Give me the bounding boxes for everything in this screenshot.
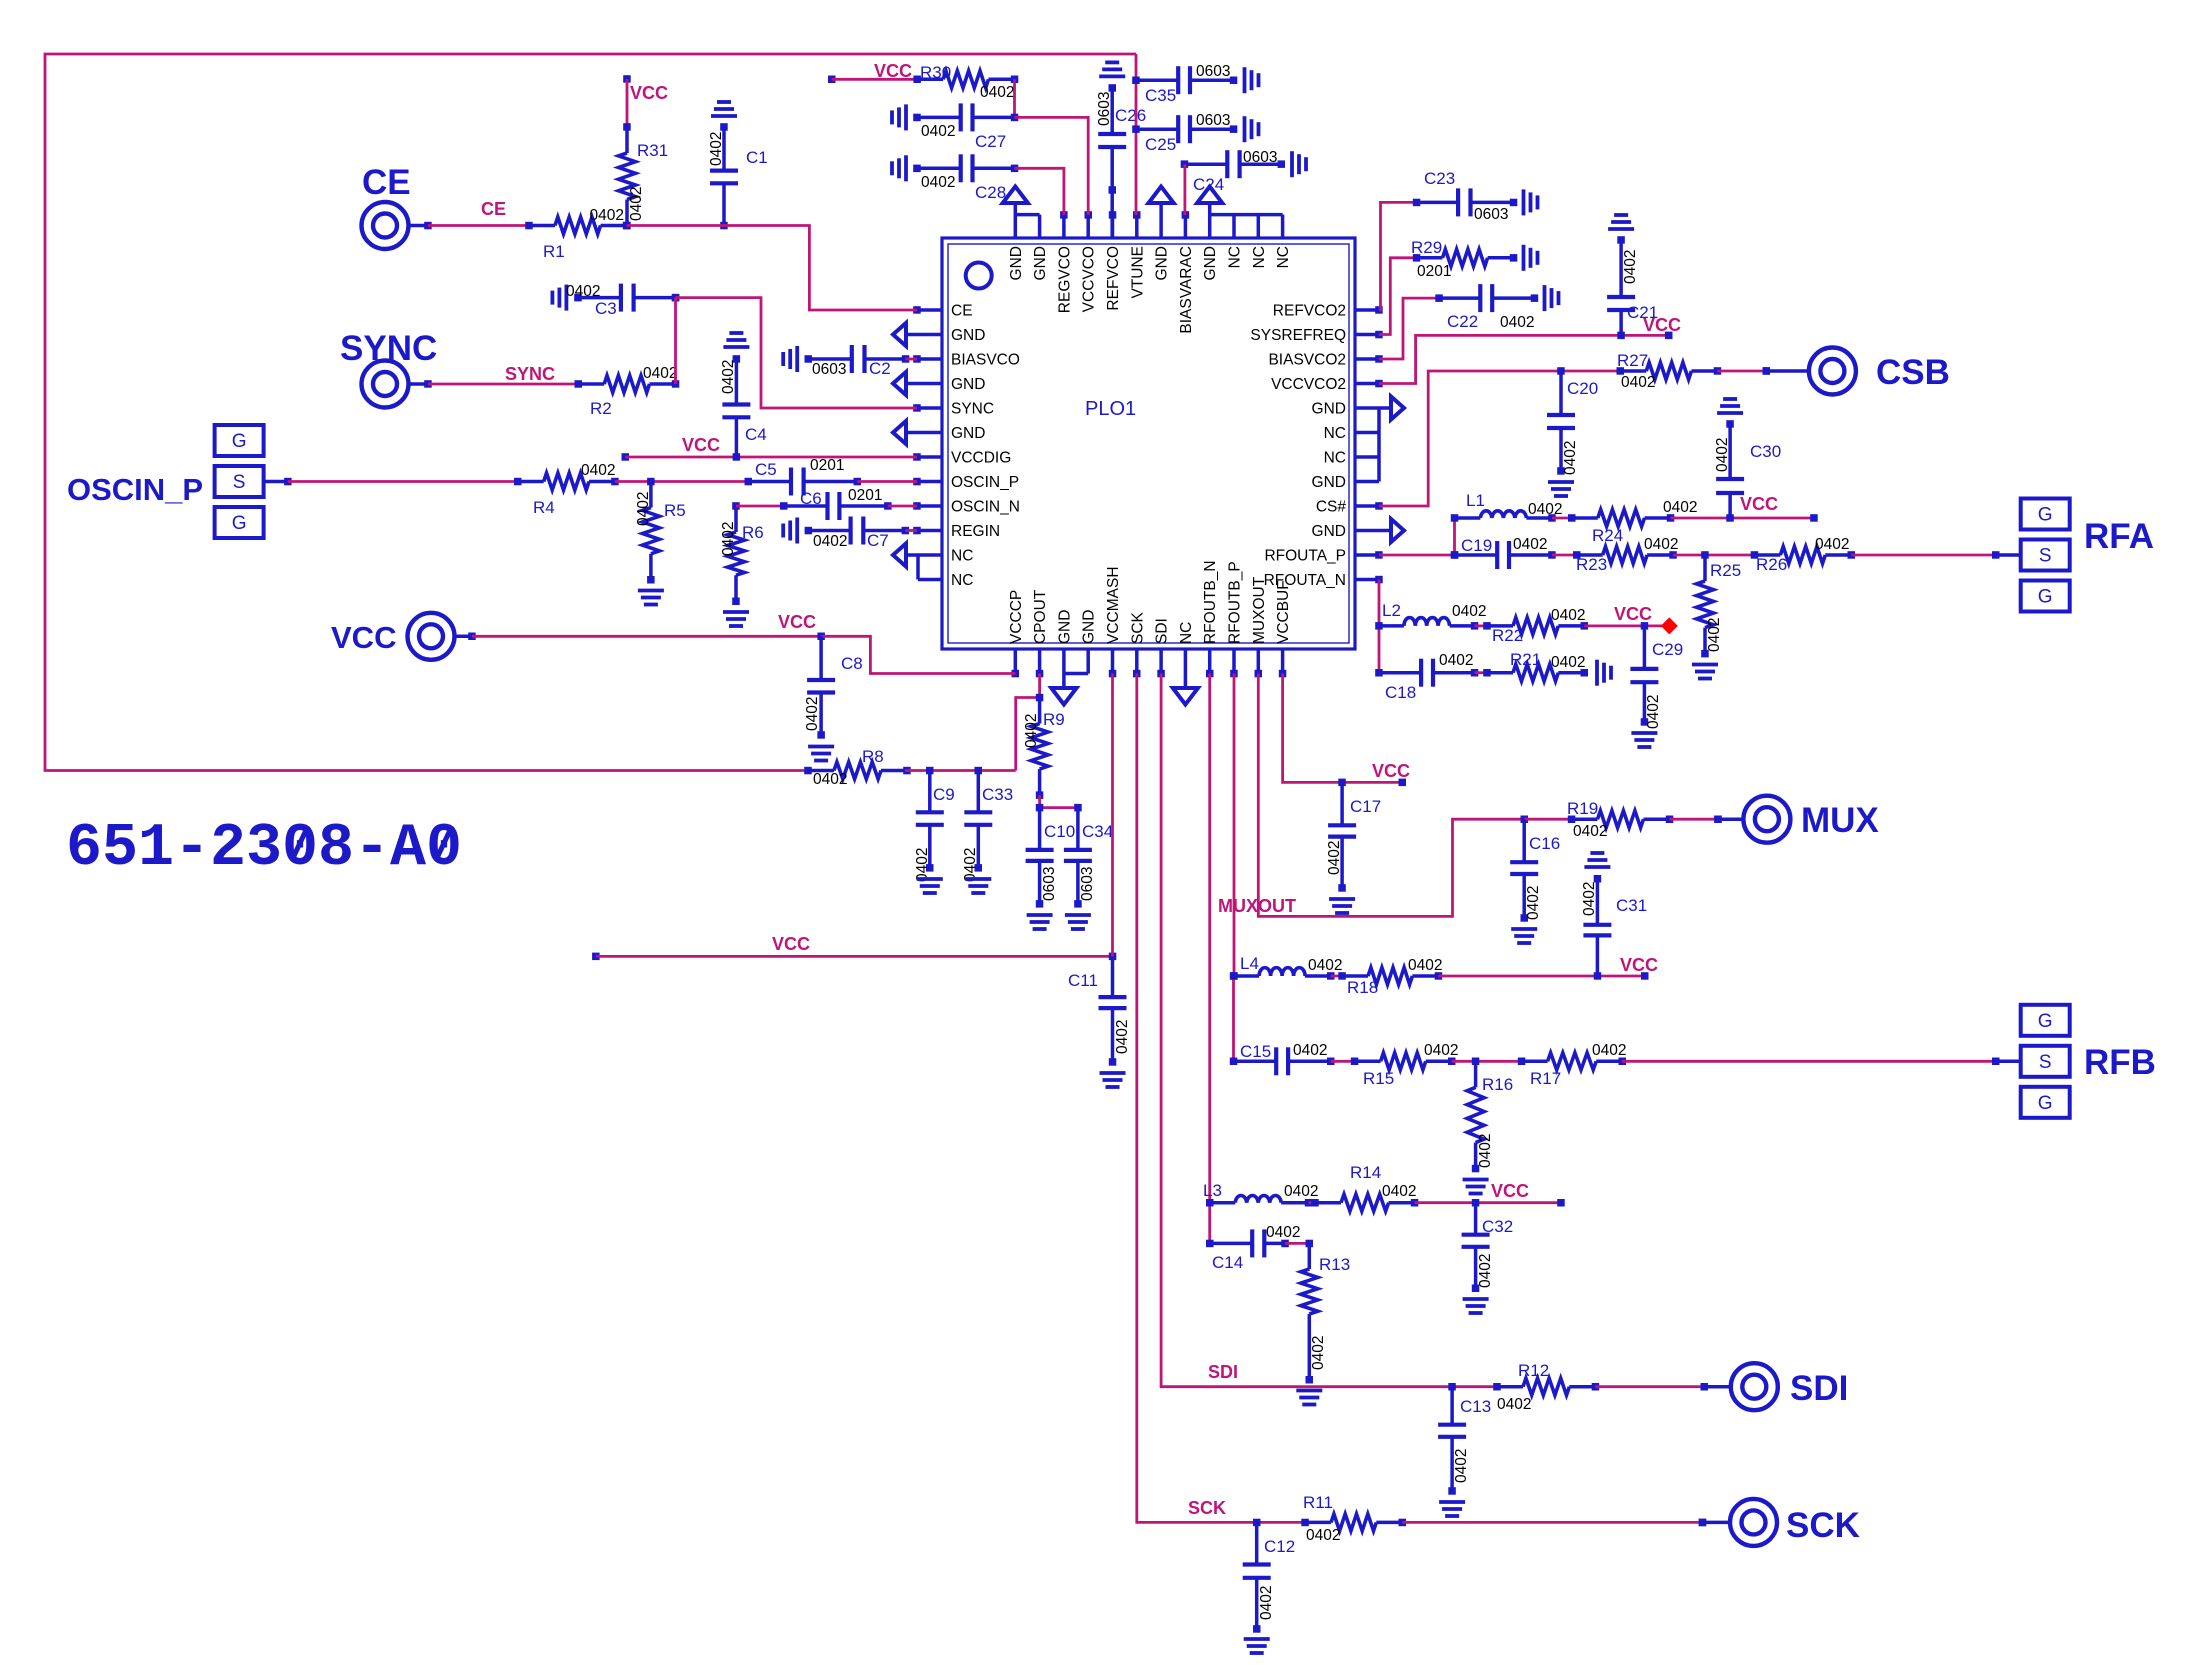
resistor R6 [728, 506, 745, 605]
ground (C33) [965, 879, 991, 893]
svg-text:R11: R11 [1303, 1493, 1333, 1512]
ground (C13) [1439, 1502, 1465, 1516]
svg-text:VCC: VCC [1491, 1181, 1529, 1201]
wire net VCC R30 [832, 78, 917, 81]
svg-text:C35: C35 [1145, 86, 1176, 105]
wire net VCC [626, 79, 629, 127]
svg-text:0603: 0603 [1196, 63, 1230, 80]
capacitor C19 [1451, 541, 1556, 569]
svg-text:R31: R31 [637, 141, 668, 160]
resistor R19 [1568, 811, 1674, 828]
svg-text:CPOUT: CPOUT [1032, 589, 1049, 644]
svg-text:S: S [2039, 1052, 2052, 1073]
junction CE/C1 [720, 222, 728, 230]
svg-text:C17: C17 [1350, 797, 1381, 816]
resistor R5 [642, 482, 659, 584]
svg-text:C32: C32 [1482, 1217, 1513, 1236]
svg-text:NC: NC [1178, 622, 1195, 644]
wire net C14-R13 [1285, 1242, 1309, 1245]
capacitor C22 [1435, 284, 1538, 312]
svg-text:0402: 0402 [1714, 438, 1731, 472]
svg-text:R25: R25 [1710, 561, 1741, 580]
svg-text:0201: 0201 [1417, 263, 1451, 280]
ground (C12) [1244, 1639, 1270, 1653]
inductor L2 [1379, 618, 1478, 630]
svg-text:C5: C5 [755, 460, 777, 479]
svg-text:0402: 0402 [643, 365, 677, 382]
pin stub RFOUTA_P [1355, 553, 1379, 557]
svg-text:R2: R2 [590, 399, 612, 418]
wire net CE [428, 224, 529, 227]
resistor R13 [1301, 1240, 1318, 1384]
connector CE [362, 202, 432, 249]
svg-text:R5: R5 [664, 501, 686, 520]
junction C3/R2 [672, 294, 680, 302]
svg-text:C26: C26 [1115, 106, 1146, 125]
junction C16 tap [1521, 816, 1529, 824]
svg-text:SDI: SDI [1208, 1362, 1238, 1382]
wire net SYNC up [674, 298, 677, 384]
junction L4/C15 [1230, 972, 1238, 980]
pin stub NC [1184, 649, 1188, 687]
svg-text:0402: 0402 [1284, 1183, 1318, 1200]
junction VCC end (VCCBUF) [1399, 779, 1407, 787]
svg-text:SDI: SDI [1790, 1369, 1848, 1408]
wire net SDI 2 [1595, 1385, 1704, 1388]
junction C29 tap [1641, 622, 1649, 630]
capacitor C4 [722, 355, 750, 457]
svg-text:VCCBUF: VCCBUF [1275, 580, 1292, 644]
wire net C18-R21 [1475, 671, 1487, 674]
svg-text:GND: GND [1312, 523, 1346, 540]
svg-text:R4: R4 [533, 498, 555, 517]
wire net VCC border [45, 54, 1136, 771]
svg-text:VCC: VCC [772, 934, 810, 954]
junction C32/VCC [1472, 1199, 1480, 1207]
wire net R14-VCC [1415, 1201, 1561, 1204]
svg-text:R21: R21 [1510, 650, 1541, 669]
pin stub GND [1159, 204, 1163, 238]
svg-text:BIASVCO2: BIASVCO2 [1268, 352, 1346, 369]
pin stub MUXOUT [1257, 649, 1261, 674]
junction C19/L1 [1451, 551, 1459, 559]
junction VCC stub [623, 75, 631, 83]
junction C21/VCC [1617, 332, 1625, 340]
pin stub GND [1355, 529, 1391, 533]
svg-text:0402: 0402 [1306, 1527, 1340, 1544]
junction VCC stub (VCCDIG) [622, 453, 630, 461]
junction SCK lead [1699, 1519, 1707, 1527]
svg-text:0402: 0402 [914, 848, 931, 882]
junction L3/C14 [1206, 1199, 1214, 1207]
svg-text:GND: GND [1202, 246, 1219, 280]
wire net CPOUT [1038, 674, 1041, 698]
ground (R13) [1296, 1391, 1322, 1405]
capacitor C26 [1098, 84, 1126, 194]
svg-text:C22: C22 [1447, 312, 1478, 331]
wire net RFB riser [1232, 976, 1235, 1061]
svg-text:C29: C29 [1652, 640, 1683, 659]
ground arrow [1051, 688, 1076, 705]
resistor R4 [514, 473, 619, 490]
pin stub OSCIN_P pad [264, 480, 288, 484]
pin stub BIASVCO [917, 357, 942, 361]
svg-text:0402: 0402 [1477, 1134, 1494, 1168]
wire net C27 to VCCVCO [1015, 117, 1089, 215]
ground (C4) [723, 333, 749, 347]
pin stub GND [906, 333, 942, 337]
wire net C14 riser [1208, 1203, 1211, 1244]
capacitor C35 [1136, 66, 1237, 94]
svg-text:R27: R27 [1617, 351, 1648, 370]
svg-text:C21: C21 [1627, 303, 1658, 322]
junction VTUNE/C35 [1132, 77, 1140, 85]
resistor R15 [1351, 1053, 1456, 1070]
ground arrow [893, 421, 906, 444]
junction VCC/C4 [733, 453, 741, 461]
capacitor C24 [1181, 150, 1285, 178]
svg-text:SYNC: SYNC [505, 364, 555, 384]
svg-text:0402: 0402 [1424, 1042, 1458, 1059]
capacitor C27 [913, 103, 1018, 131]
capacitor C25 [1136, 115, 1237, 143]
junction MUX lead [1714, 816, 1722, 824]
svg-text:0402: 0402 [1815, 536, 1849, 553]
svg-text:C9: C9 [933, 785, 955, 804]
svg-text:C4: C4 [745, 425, 767, 444]
inductor L4 [1230, 968, 1334, 980]
svg-text:SCK: SCK [1786, 1506, 1860, 1545]
svg-text:C6: C6 [800, 489, 822, 508]
svg-text:VCC: VCC [1620, 955, 1658, 975]
junction VCC end (R18) [1641, 972, 1649, 980]
pin stub GND [1062, 649, 1066, 687]
capacitor C3 [574, 284, 679, 312]
svg-text:RFB: RFB [2084, 1043, 2156, 1082]
wire net RFA [1851, 554, 1995, 557]
capacitor C30 [1716, 420, 1744, 518]
ground (C21) [1608, 215, 1634, 229]
ground (C32) [1463, 1299, 1489, 1313]
svg-text:0402: 0402 [1114, 1020, 1131, 1054]
op-amp U1 PLO1 IC body [942, 238, 1355, 649]
resistor R17 [1518, 1053, 1626, 1070]
svg-text:L4: L4 [1240, 954, 1259, 973]
svg-text:VCCVCO: VCCVCO [1081, 246, 1098, 312]
pin stub REGVCO [1062, 215, 1066, 238]
svg-text:0402: 0402 [1439, 652, 1473, 669]
wire net OSCIN_P 3 [857, 480, 917, 483]
svg-text:L2: L2 [1382, 601, 1401, 620]
svg-text:0402: 0402 [1477, 1254, 1494, 1288]
ground (R16) [1463, 1180, 1489, 1194]
no-connect arrow [893, 544, 906, 567]
svg-text:GND: GND [1312, 474, 1346, 491]
wire net OSCIN_N [736, 505, 784, 508]
pin stub BIASVCO2 [1355, 357, 1379, 361]
wire net CSB 2 [1717, 370, 1766, 373]
pin stub REGIN [917, 529, 942, 533]
junction C8 low [817, 731, 825, 739]
svg-text:R24: R24 [1592, 526, 1623, 545]
svg-text:C20: C20 [1567, 379, 1598, 398]
svg-text:0402: 0402 [1266, 1224, 1300, 1241]
wire net R15-R17 [1452, 1060, 1522, 1063]
svg-text:VTUNE: VTUNE [1129, 246, 1146, 299]
ground (C26) [1099, 62, 1125, 76]
svg-text:G: G [2038, 1011, 2053, 1032]
junction C33 tap [975, 767, 983, 775]
junction C9 tap [926, 767, 934, 775]
ground (C9) [917, 879, 943, 893]
svg-text:C7: C7 [867, 531, 889, 550]
junction C20 tap [1557, 367, 1565, 375]
svg-text:OSCIN_P: OSCIN_P [67, 472, 203, 507]
svg-text:NC: NC [1275, 246, 1292, 268]
svg-text:GND: GND [951, 376, 985, 393]
wire net MUXOUT [1258, 674, 1524, 917]
wire net VCCBUF [1283, 674, 1403, 783]
connector MUX [1714, 796, 1790, 843]
svg-text:0402: 0402 [1573, 823, 1607, 840]
pin stub NC/GND bus [1377, 408, 1381, 482]
svg-text:0603: 0603 [1243, 149, 1277, 166]
svg-text:C28: C28 [975, 183, 1006, 202]
wire net RFOUTA_P [1379, 554, 1455, 557]
junction VCC stub (C11) [592, 953, 600, 961]
svg-text:0402: 0402 [962, 848, 979, 882]
svg-text:SCK: SCK [1129, 611, 1146, 644]
svg-text:0402: 0402 [921, 123, 955, 140]
svg-text:REFVCO2: REFVCO2 [1273, 303, 1346, 320]
svg-text:0402: 0402 [1645, 695, 1662, 729]
wire net REFVCO2 [1379, 202, 1417, 310]
wire net R9 low [1038, 795, 1041, 808]
svg-text:0402: 0402 [804, 697, 821, 731]
junction R25 tap [1701, 551, 1709, 559]
svg-text:S: S [2039, 546, 2052, 567]
svg-text:VCC: VCC [1372, 761, 1410, 781]
pin stub SYNC [917, 406, 942, 410]
svg-text:C3: C3 [595, 299, 617, 318]
svg-text:0402: 0402 [1513, 536, 1547, 553]
svg-text:0402: 0402 [1622, 250, 1639, 284]
svg-text:VCC: VCC [682, 435, 720, 455]
svg-text:R6: R6 [742, 523, 764, 542]
svg-text:0201: 0201 [810, 457, 844, 474]
svg-text:VCC: VCC [1740, 494, 1778, 514]
svg-text:0402: 0402 [1706, 618, 1723, 652]
capacitor C20 [1547, 371, 1575, 475]
ground (C29) [1631, 733, 1657, 747]
capacitor C12 [1243, 1522, 1271, 1632]
capacitor C16 [1510, 819, 1538, 922]
svg-text:NC: NC [1227, 246, 1244, 268]
svg-text:0402: 0402 [1382, 1183, 1416, 1200]
svg-text:0402: 0402 [1452, 603, 1486, 620]
pin stub GND [906, 382, 942, 386]
wire net OSCIN_N 2 [888, 505, 917, 508]
wire net MUXOUT 2 [1524, 818, 1571, 821]
connector CSB [1763, 348, 1856, 395]
svg-text:R18: R18 [1347, 978, 1378, 997]
capacitor C34 [1064, 804, 1092, 908]
ground (R25) [1692, 665, 1718, 679]
svg-text:R16: R16 [1482, 1075, 1513, 1094]
junction R6/C6 [732, 502, 740, 510]
svg-text:0402: 0402 [813, 533, 847, 550]
resistor R14 [1311, 1194, 1418, 1211]
pin stub GND [1208, 204, 1212, 238]
svg-text:VCCVCO2: VCCVCO2 [1271, 376, 1346, 393]
wire net VCC long [596, 955, 1113, 958]
resistor R27 [1617, 363, 1722, 380]
wire net VCCVCO2 [1379, 335, 1669, 383]
wire net VCC VCCDIG [625, 456, 917, 459]
ground (C28) [892, 155, 906, 181]
junction CSB lead [1763, 367, 1771, 375]
junction C13 tap [1448, 1383, 1456, 1391]
wire net OSCIN_P [288, 480, 518, 483]
wire net VTUNE [1135, 54, 1138, 215]
resistor R25 [1697, 555, 1714, 657]
pin stub CE [917, 308, 942, 312]
pin stub GND [1014, 204, 1018, 238]
wire net CPOUT riser [1016, 698, 1040, 771]
capacitor C1 [710, 123, 738, 225]
svg-text:S: S [233, 472, 246, 493]
svg-text:C12: C12 [1264, 1537, 1295, 1556]
svg-text:R30: R30 [920, 63, 951, 82]
pin stub VCCCP [1014, 649, 1018, 674]
svg-text:R13: R13 [1319, 1255, 1350, 1274]
svg-text:C23: C23 [1424, 169, 1455, 188]
ground (C17) [1329, 899, 1355, 913]
svg-text:VCC: VCC [1614, 604, 1652, 624]
svg-text:CSB: CSB [1876, 353, 1950, 392]
wire net L3-R14 [1309, 1201, 1316, 1204]
svg-text:C34: C34 [1082, 822, 1113, 841]
capacitor C21 [1607, 236, 1635, 335]
svg-text:0402: 0402 [720, 360, 737, 394]
svg-text:VCCCP: VCCCP [1008, 590, 1025, 644]
ground (R5) [638, 591, 664, 605]
wire net SYSREFREQ [1379, 258, 1417, 335]
svg-text:C1: C1 [746, 148, 768, 167]
wire net SCK [1137, 674, 1305, 1523]
svg-text:SDI: SDI [1154, 618, 1171, 644]
svg-text:0402: 0402 [720, 522, 737, 556]
pin stub GND step [1038, 215, 1042, 238]
junction VCC stub (R30) [828, 76, 836, 84]
pin stub SYSREFREQ [1355, 333, 1379, 337]
wire net SYNC [428, 383, 578, 386]
svg-text:NC: NC [1251, 246, 1268, 268]
wire net C10-C34 [1040, 806, 1078, 809]
pin stub RFB pad [1996, 1060, 2021, 1064]
svg-text:VCC: VCC [778, 612, 816, 632]
ground (C25) [1245, 116, 1259, 142]
capacitor C7 [805, 517, 910, 545]
wire net BIASVCO2 [1379, 298, 1439, 359]
connector SYNC [362, 361, 432, 408]
svg-text:0402: 0402 [1326, 841, 1343, 875]
svg-text:VCC: VCC [331, 620, 396, 655]
svg-text:BIASVCO: BIASVCO [951, 352, 1020, 369]
svg-text:651-2308-A0: 651-2308-A0 [66, 815, 462, 883]
pin stub REFVCO [1111, 215, 1115, 238]
svg-text:GND: GND [1312, 401, 1346, 418]
svg-text:L3: L3 [1203, 1181, 1222, 1200]
pin stub REFVCO2 [1355, 308, 1379, 312]
junction SDI lead [1701, 1383, 1709, 1391]
svg-text:0402: 0402 [1525, 886, 1542, 920]
svg-text:R9: R9 [1043, 710, 1065, 729]
wire net CSB [1379, 371, 1620, 506]
svg-text:G: G [2038, 587, 2053, 608]
wire net C15-R15 [1331, 1060, 1355, 1063]
capacitor C28 [913, 154, 1018, 182]
wire net CPOUT low [905, 769, 1016, 772]
ground (C11) [1100, 1073, 1126, 1087]
pin stub GND step [1086, 649, 1090, 674]
junction VCC/C8 [817, 633, 825, 641]
svg-text:C10: C10 [1044, 822, 1075, 841]
svg-text:0402: 0402 [921, 174, 955, 191]
connector OSCIN_P G-S-G pads [215, 425, 264, 538]
svg-text:R26: R26 [1756, 555, 1787, 574]
svg-text:GND: GND [1008, 246, 1025, 280]
wire net L1 left [1453, 518, 1456, 555]
svg-text:C30: C30 [1750, 442, 1781, 461]
resistor R24 [1568, 510, 1674, 527]
svg-text:0402: 0402 [1562, 441, 1579, 475]
wire net OSCIN_P 2 [615, 480, 748, 483]
ground (C24) [1292, 151, 1306, 177]
svg-text:REGIN: REGIN [951, 523, 1000, 540]
svg-text:C11: C11 [1068, 971, 1098, 990]
resistor R9 [1031, 694, 1048, 799]
svg-text:L1: L1 [1466, 491, 1485, 510]
wire net VCCMASH [1111, 674, 1114, 957]
svg-text:R22: R22 [1492, 626, 1523, 645]
svg-text:NC: NC [951, 572, 973, 589]
svg-text:0402: 0402 [1500, 314, 1534, 331]
svg-text:0402: 0402 [1528, 501, 1562, 518]
svg-text:C16: C16 [1529, 834, 1560, 853]
pin stub SCK [1135, 649, 1139, 674]
svg-text:0603: 0603 [1041, 867, 1058, 901]
svg-text:GND: GND [1032, 246, 1049, 280]
capacitor C9 [916, 771, 944, 872]
svg-text:C18: C18 [1385, 683, 1416, 702]
junction VCC end (R14) [1557, 1199, 1565, 1207]
junction C17 tap [1338, 779, 1346, 787]
svg-text:GND: GND [951, 327, 985, 344]
wire net MUX [1670, 818, 1719, 821]
svg-text:RFOUTB_P: RFOUTB_P [1227, 561, 1244, 644]
svg-text:C31: C31 [1616, 896, 1647, 915]
svg-text:C14: C14 [1212, 1253, 1243, 1272]
svg-text:0402: 0402 [1581, 882, 1598, 916]
wire net CE to pin [627, 226, 918, 311]
svg-text:0402: 0402 [590, 207, 624, 224]
pin stub OSCIN_N [917, 504, 942, 508]
wire net R23-R26 [1673, 554, 1754, 557]
ground (C27) [892, 104, 906, 130]
svg-text:VCC: VCC [630, 83, 668, 103]
pin stub RFOUTA_N [1355, 578, 1379, 582]
